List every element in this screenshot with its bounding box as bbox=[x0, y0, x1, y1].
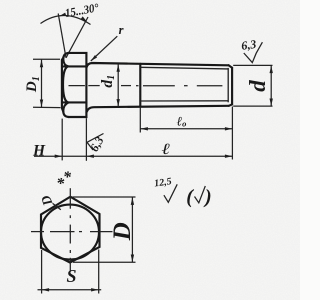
r leader line bbox=[91, 36, 118, 61]
shaft bottom edge with fillet bbox=[87, 106, 229, 113]
D arrow top bbox=[131, 197, 134, 205]
thread minor diameter line top bbox=[140, 67, 228, 69]
d arrow bottom bbox=[270, 99, 273, 107]
chamfer angle slant line bbox=[66, 17, 88, 58]
d1 arrow bottom bbox=[117, 99, 120, 107]
d dimension extension line bottom bbox=[233, 105, 272, 107]
H arrow left (outside) bbox=[55, 155, 63, 158]
D1 arrow bottom bbox=[40, 100, 43, 108]
roughness 12,5 check symbol bbox=[164, 184, 177, 202]
D1 dimension extension line top bbox=[33, 58, 60, 60]
hexagon head top view bbox=[41, 197, 100, 263]
head facet line upper bbox=[62, 65, 86, 67]
H and l shared dimension line bbox=[34, 155, 233, 157]
head chamfer curve top facet bbox=[63, 53, 68, 67]
S arrow right bbox=[91, 288, 99, 291]
head left face extension line bbox=[61, 119, 63, 161]
end chamfer bottom bbox=[229, 104, 232, 105]
D dimension extension top bbox=[73, 196, 136, 198]
head right face extension line bbox=[85, 118, 87, 161]
D arrow bottom bbox=[131, 255, 134, 263]
d dimension line bbox=[270, 66, 272, 106]
l arrow right bbox=[225, 155, 233, 158]
H/l arrow at bearing face bbox=[86, 155, 94, 158]
l0 arrow left bbox=[140, 127, 148, 130]
d1 arrow top bbox=[117, 64, 120, 72]
S extension left bbox=[41, 250, 43, 294]
d1 dimension line bbox=[117, 64, 119, 106]
r leader arrowhead bbox=[91, 55, 97, 61]
roughness 6,3 at thread: symbol bbox=[244, 42, 263, 62]
bolt end face bbox=[231, 68, 233, 105]
hexagon horizontal centerline bbox=[31, 231, 113, 233]
head chamfer curve middle facet bbox=[63, 66, 68, 102]
l0 dimension line bbox=[140, 128, 232, 130]
bolt head outline bbox=[62, 53, 87, 117]
roughness 6,3 on bearing face: symbol bbox=[87, 134, 104, 151]
d dimension extension line top bbox=[233, 64, 272, 66]
end chamfer top bbox=[229, 65, 233, 67]
l0 arrow right bbox=[225, 127, 233, 130]
d arrow top bbox=[270, 66, 273, 74]
bolt axis centerline bbox=[69, 85, 223, 87]
chamfer angle vertex line bbox=[58, 14, 66, 58]
l0 extension line (thread start) bbox=[139, 108, 141, 133]
thread chamfer edge line bbox=[227, 68, 229, 102]
thread minor diameter line bottom bbox=[140, 100, 228, 102]
check inside parens bbox=[195, 186, 206, 203]
angle dimension arc bbox=[41, 15, 91, 24]
inscribed circle bbox=[41, 205, 99, 260]
D dimension line bbox=[131, 197, 133, 262]
bolt end extension line bbox=[231, 107, 233, 160]
D1 dimension extension line bottom bbox=[33, 106, 61, 108]
thread start boundary bbox=[139, 64, 141, 107]
angle arc arrowhead left bbox=[59, 13, 66, 17]
S arrow left bbox=[42, 288, 50, 291]
hexagon vertical centerline bbox=[69, 188, 71, 271]
S extension right bbox=[98, 250, 100, 294]
D1 arrow top bbox=[40, 60, 43, 68]
S dimension line bbox=[38, 289, 102, 291]
D1 dimension line bbox=[41, 60, 43, 108]
D label leader bbox=[53, 204, 61, 210]
angle arc arrowhead right bbox=[81, 16, 88, 22]
shaft top edge with fillet bbox=[87, 63, 229, 68]
head chamfer curve bottom facet bbox=[63, 103, 68, 118]
head facet line lower bbox=[62, 101, 86, 103]
D dimension extension bottom bbox=[73, 261, 136, 263]
